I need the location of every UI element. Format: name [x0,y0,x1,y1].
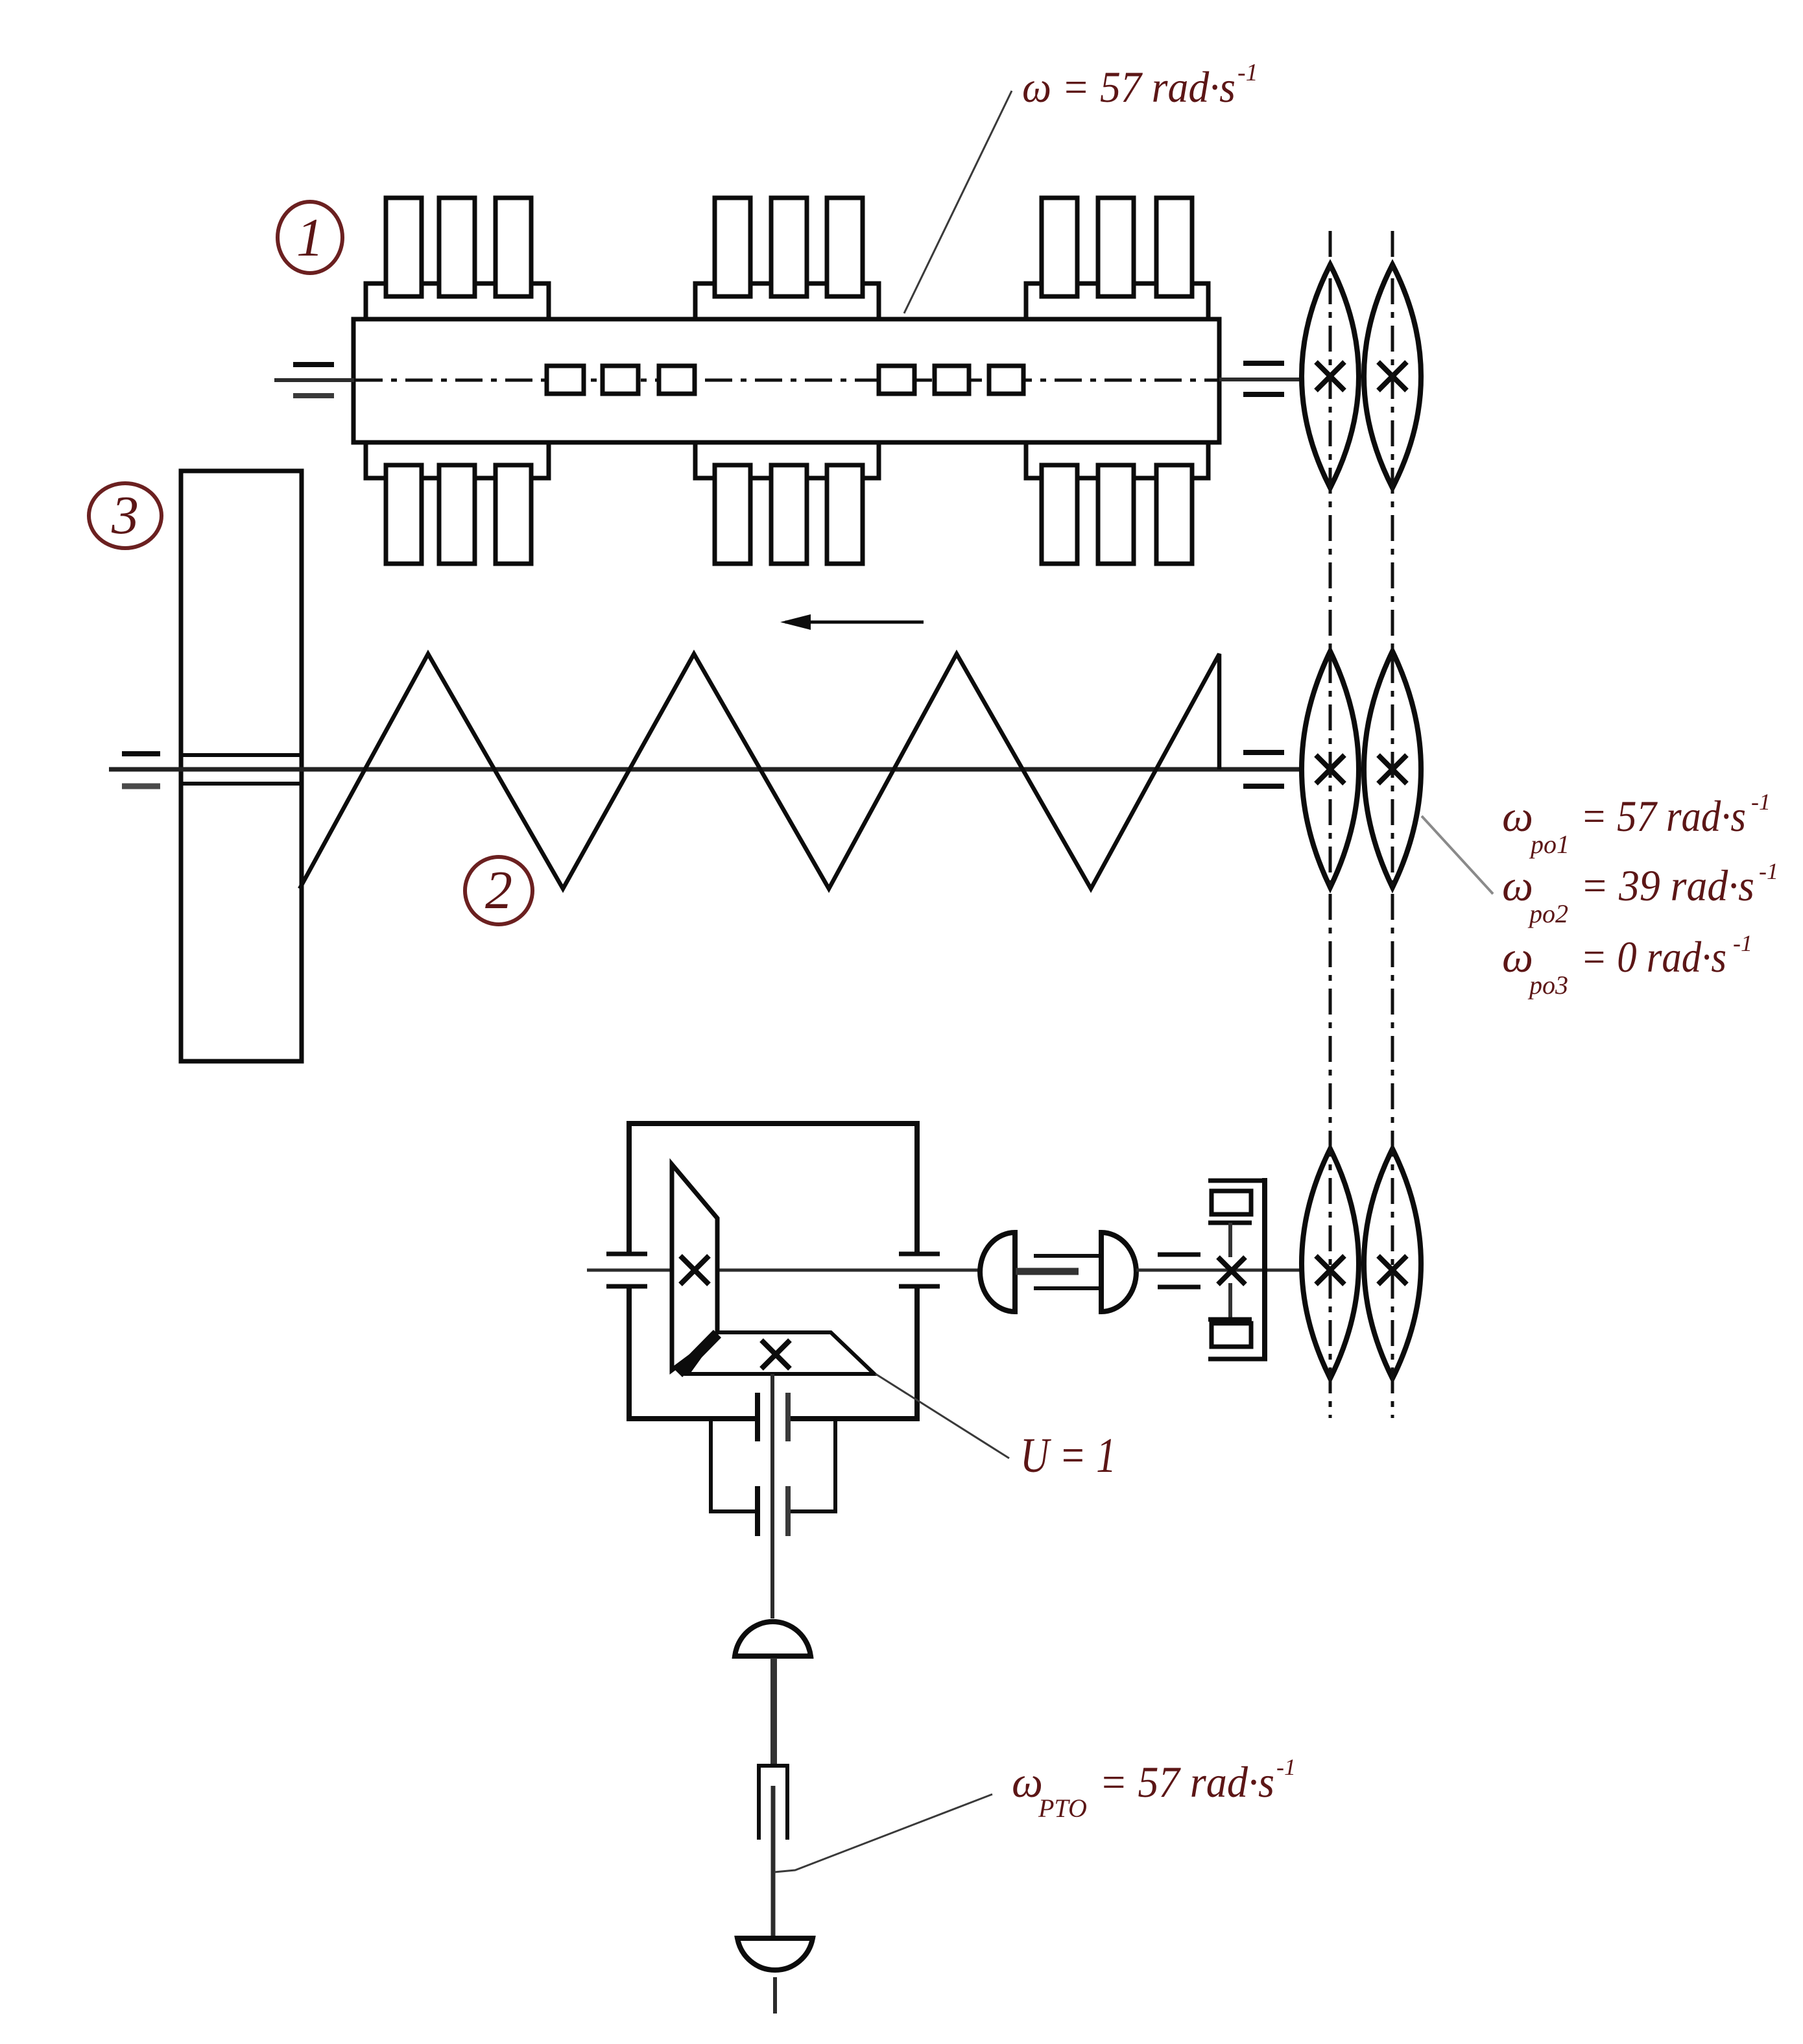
PTO tail shaft [773,1977,777,2014]
auger pulley 1 [1302,651,1359,887]
flail teeth bottom group C [1042,465,1192,564]
feed direction arrow [780,614,924,630]
telescoping inner shaft [771,1786,776,1940]
drum right bearing [1243,361,1284,366]
flail teeth bottom group B [715,465,863,564]
coupling slider inner shaft [1016,1268,1079,1275]
drum left shaft stub [274,378,354,382]
svg-text:= 57 rad·s: = 57 rad·s [1581,791,1746,841]
label omega_po2 [1502,858,1778,928]
drum body 1 [353,319,1219,442]
svg-text:1: 1 [296,208,324,268]
svg-text:2: 2 [485,860,512,920]
universal joint yoke lower [737,1938,813,1970]
auger pulley x marks [1316,755,1407,784]
label omega_po1 [1502,789,1771,859]
vertical shaft bearings lower pair [755,1486,760,1536]
leader line to drum [904,91,1012,313]
auger right bearing [1243,750,1284,755]
svg-text:= 57 rad·s: = 57 rad·s [1099,1757,1274,1807]
flail teeth top group A [386,198,531,296]
belt centerline right [1391,231,1394,1418]
flail clamp plate top group A [366,283,549,319]
flail teeth bottom group A [386,465,531,564]
leader to crown gear [876,1374,1009,1458]
gearbox horizontal shaft [587,1269,981,1272]
drum pulley x marks [1316,362,1407,391]
sprocket x mark [1218,1257,1245,1284]
coupling right half dome [1101,1232,1136,1312]
drum pulley 2 [1364,265,1421,488]
belt centerline left [1329,231,1332,1418]
crown x mark [761,1340,790,1369]
svg-text:ω: ω [1502,861,1533,910]
telescoping tube [759,1766,787,1840]
auger left bearing [122,751,160,756]
svg-text:PTO: PTO [1038,1794,1087,1823]
drum centerline [355,379,1218,382]
universal joint yoke upper [735,1622,811,1656]
leader to telescoping shaft [774,1794,992,1872]
vertical output shaft [770,1374,774,1618]
drum pulley 1 [1302,265,1359,488]
svg-text:po3: po3 [1527,970,1568,1000]
gearbox input bearing caps right [899,1252,940,1256]
flail clamp plate bottom group B [695,442,879,478]
svg-text:= 0 rad·s: = 0 rad·s [1581,932,1726,981]
coupling slider lines [1034,1254,1103,1258]
flail teeth top group C [1042,198,1192,296]
label omega_po3 [1502,930,1752,1000]
svg-text:U = 1: U = 1 [1020,1428,1116,1483]
gearbox input bearing caps left [606,1252,647,1256]
bottom pulley 1 [1302,1149,1359,1378]
sprocket shaft bearing [1158,1253,1200,1257]
label circle 3 (disc) [89,483,161,548]
bevel crown gear [687,1332,874,1374]
shaft coupling to sprocket [1136,1269,1302,1272]
drum spline keys on centerline [547,366,1023,394]
label circle 2 (auger) [465,857,532,924]
auger screw flight 2 [300,654,1219,889]
coupling left half dome [980,1232,1015,1312]
svg-text:3: 3 [111,485,139,546]
flail teeth top group B [715,198,863,296]
svg-text:ω = 57 rad·s: ω = 57 rad·s [1022,62,1236,112]
auger pulley 2 [1364,651,1421,887]
disc 3 body [181,471,302,1061]
svg-text:ω: ω [1502,791,1533,841]
bevel pinion [672,1164,717,1370]
drum right shaft [1219,378,1304,381]
drum left bearing [293,362,334,367]
svg-text:ω: ω [1502,932,1533,981]
pinion-crown mesh diagonal [678,1334,717,1373]
sprocket wheel [1208,1178,1267,1360]
PTO thick shaft upper [770,1658,777,1764]
leader to pulley speed labels [1422,816,1493,894]
svg-text:= 39 rad·s: = 39 rad·s [1581,861,1754,910]
label omega_PTO [1012,1754,1296,1823]
svg-text:-1: -1 [1276,1754,1296,1780]
svg-text:-1: -1 [1237,59,1258,86]
flail clamp plate bottom group C [1026,442,1208,478]
disc hub band [181,753,302,757]
bottom pulley x marks [1316,1256,1407,1284]
svg-text:po2: po2 [1527,899,1568,928]
svg-text:-1: -1 [1733,930,1752,956]
flail clamp plate bottom group A [366,442,549,478]
flail clamp plate top group C [1026,283,1208,319]
gearbox housing [627,1121,920,1421]
svg-text:-1: -1 [1759,858,1778,884]
pinion x mark [680,1256,709,1284]
lower bearing bracket [709,1419,837,1513]
flail clamp plate top group B [695,283,879,319]
svg-text:po1: po1 [1529,830,1570,859]
label omega = 57 rad/s (drum speed) [1022,59,1258,112]
bottom pulley 2 [1364,1149,1421,1378]
vertical shaft bearings upper pair [755,1393,760,1441]
label circle 1 (flail drum) [278,202,342,273]
auger shaft [109,767,1302,772]
svg-text:-1: -1 [1751,789,1771,815]
